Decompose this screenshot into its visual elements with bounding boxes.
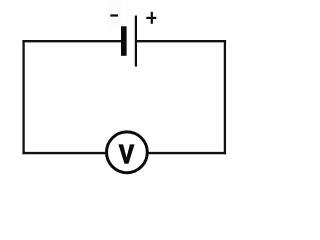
battery B1 negative plate (thick short bar) (121, 26, 127, 56)
wire: top-left horizontal segment (22, 40, 121, 42)
label - (negative) (110, 14, 118, 16)
voltmeter U1 letter V (118, 144, 134, 163)
wire: left vertical segment (22, 40, 24, 154)
wire: right vertical segment (224, 40, 226, 154)
wire: top-right horizontal segment (136, 40, 227, 42)
faint highlight band behind minus label (109, 1, 122, 27)
battery B1 positive plate (thin long line) (135, 16, 137, 67)
voltmeter U1 circle (107, 132, 148, 173)
wire: bottom-left horizontal segment (22, 152, 106, 154)
label + (positive) (146, 12, 156, 24)
wire: bottom-right horizontal segment (148, 152, 227, 154)
